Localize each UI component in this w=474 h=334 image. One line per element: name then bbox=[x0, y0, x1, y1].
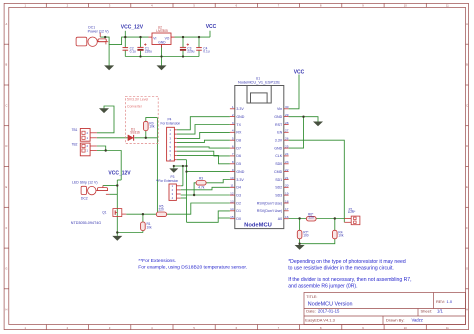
svg-text:4: 4 bbox=[232, 129, 234, 133]
svg-text:TB1: TB1 bbox=[72, 128, 78, 132]
svg-text:D6: D6 bbox=[236, 154, 241, 158]
svg-text:Q1: Q1 bbox=[102, 211, 106, 215]
svg-text:P3: P3 bbox=[171, 175, 175, 179]
svg-text:VCC_12V: VCC_12V bbox=[108, 170, 131, 176]
svg-text:EasyEDA V4.1.3: EasyEDA V4.1.3 bbox=[305, 317, 335, 322]
svg-text:RSV(Don't Use): RSV(Don't Use) bbox=[257, 201, 282, 205]
svg-text:220: 220 bbox=[309, 215, 315, 219]
svg-text:SD0: SD0 bbox=[275, 162, 282, 166]
svg-text:29: 29 bbox=[285, 113, 289, 117]
svg-text:17: 17 bbox=[285, 207, 289, 211]
svg-text:LM7805: LM7805 bbox=[156, 29, 168, 33]
svg-text:D8: D8 bbox=[236, 139, 241, 143]
svg-text:10k: 10k bbox=[149, 125, 155, 129]
svg-text:GND: GND bbox=[158, 41, 166, 45]
svg-text:0.1u: 0.1u bbox=[130, 50, 136, 54]
svg-text:26: 26 bbox=[285, 137, 289, 141]
svg-text:16: 16 bbox=[285, 215, 289, 219]
svg-text:D2: D2 bbox=[236, 201, 241, 205]
svg-text:0.1u: 0.1u bbox=[203, 50, 209, 54]
svg-text:SD3: SD3 bbox=[275, 193, 282, 197]
svg-text:Sheet:: Sheet: bbox=[421, 309, 433, 314]
svg-text:5V/3.3V Level: 5V/3.3V Level bbox=[127, 97, 148, 101]
svg-text:Drawn By:: Drawn By: bbox=[386, 317, 404, 322]
svg-text:Power (12 V): Power (12 V) bbox=[88, 29, 109, 33]
svg-text:24: 24 bbox=[285, 152, 289, 156]
svg-text:22: 22 bbox=[285, 168, 289, 172]
svg-text:VCC: VCC bbox=[294, 70, 305, 76]
svg-text:E: E bbox=[466, 185, 468, 189]
svg-text:**For Extensions.: **For Extensions. bbox=[138, 258, 176, 264]
svg-text:D: D bbox=[466, 144, 468, 148]
svg-text:TB2: TB2 bbox=[72, 143, 78, 147]
svg-text:23: 23 bbox=[285, 160, 289, 164]
svg-text:B: B bbox=[466, 63, 468, 67]
svg-text:19: 19 bbox=[285, 191, 289, 195]
svg-text:3.3V: 3.3V bbox=[236, 178, 244, 182]
svg-text:REV:: REV: bbox=[436, 299, 445, 304]
svg-text:21: 21 bbox=[285, 176, 289, 180]
svg-text:9: 9 bbox=[232, 168, 234, 172]
svg-text:RX: RX bbox=[236, 131, 242, 135]
svg-text:Converter: Converter bbox=[127, 105, 143, 109]
svg-text:LDR*: LDR* bbox=[348, 210, 356, 214]
svg-text:GND: GND bbox=[236, 170, 244, 174]
svg-text:D4: D4 bbox=[236, 186, 241, 190]
svg-text:4.7k: 4.7k bbox=[198, 186, 204, 190]
svg-text:C: C bbox=[5, 103, 7, 107]
svg-text:1/1: 1/1 bbox=[437, 309, 443, 314]
svg-text:NodeMCU Version: NodeMCU Version bbox=[308, 302, 353, 308]
svg-text:100: 100 bbox=[303, 234, 309, 238]
svg-text:GND: GND bbox=[236, 115, 244, 119]
svg-text:13: 13 bbox=[230, 199, 234, 203]
svg-text:28: 28 bbox=[285, 121, 289, 125]
svg-text:12: 12 bbox=[230, 191, 234, 195]
svg-text:10k: 10k bbox=[147, 225, 153, 229]
svg-text:2017-01-15: 2017-01-15 bbox=[318, 309, 340, 314]
svg-text:E: E bbox=[6, 185, 8, 189]
svg-text:220u: 220u bbox=[145, 50, 152, 54]
svg-text:15: 15 bbox=[230, 215, 234, 219]
svg-text:to use resistive divider in th: to use resistive divider in the measurin… bbox=[288, 265, 394, 271]
svg-text:For example, using DS18B20 tem: For example, using DS18B20 temperature s… bbox=[138, 265, 247, 271]
svg-text:TX: TX bbox=[236, 123, 241, 127]
svg-text:G: G bbox=[466, 267, 468, 271]
svg-text:A0: A0 bbox=[278, 217, 282, 221]
svg-text:3: 3 bbox=[232, 121, 234, 125]
svg-text:Vadzz: Vadzz bbox=[412, 318, 423, 323]
svg-text:D: D bbox=[5, 144, 7, 148]
svg-text:SS316: SS316 bbox=[130, 131, 140, 135]
svg-text:D3: D3 bbox=[236, 193, 241, 197]
svg-text:1.0: 1.0 bbox=[447, 299, 453, 304]
svg-text:SD2: SD2 bbox=[275, 186, 282, 190]
svg-text:3.3V: 3.3V bbox=[275, 139, 283, 143]
svg-text:G: G bbox=[5, 267, 7, 271]
svg-text:1: 1 bbox=[232, 105, 234, 109]
svg-text:TITLE:: TITLE: bbox=[306, 295, 317, 299]
svg-text:3.3V: 3.3V bbox=[236, 107, 244, 111]
svg-text:NodeMCU_V1_ESP12E: NodeMCU_V1_ESP12E bbox=[238, 80, 280, 85]
svg-text:5: 5 bbox=[232, 137, 234, 141]
svg-text:H: H bbox=[5, 307, 7, 311]
svg-text:8: 8 bbox=[232, 160, 234, 164]
svg-text:30: 30 bbox=[285, 105, 289, 109]
svg-text:Vin: Vin bbox=[277, 107, 282, 111]
svg-text:B: B bbox=[6, 63, 8, 67]
svg-text:VCC: VCC bbox=[206, 24, 217, 30]
svg-text:If the divider is not necessar: If the divider is not necessary, then no… bbox=[288, 277, 411, 283]
svg-text:25: 25 bbox=[285, 144, 289, 148]
svg-text:2: 2 bbox=[232, 113, 234, 117]
svg-text:H: H bbox=[466, 307, 468, 311]
svg-text:D1: D1 bbox=[236, 209, 241, 213]
svg-text:NTD3055-094T4G: NTD3055-094T4G bbox=[71, 221, 101, 225]
svg-text:11: 11 bbox=[230, 184, 233, 188]
svg-text:**For Extension: **For Extension bbox=[156, 179, 178, 183]
svg-text:6: 6 bbox=[232, 144, 234, 148]
svg-text:D5: D5 bbox=[236, 162, 241, 166]
svg-text:D0: D0 bbox=[236, 217, 241, 221]
svg-text:C: C bbox=[466, 103, 468, 107]
svg-text:R3: R3 bbox=[199, 177, 203, 181]
svg-text:A: A bbox=[466, 22, 468, 26]
svg-text:RSV(Don't Use): RSV(Don't Use) bbox=[257, 209, 282, 213]
svg-text:For Extension: For Extension bbox=[161, 121, 181, 125]
svg-text:SD1: SD1 bbox=[275, 178, 282, 182]
svg-text:GND: GND bbox=[274, 146, 282, 150]
svg-text:*Depending on the type of phot: *Depending on the type of photoresistor … bbox=[288, 259, 406, 265]
svg-text:GND: GND bbox=[274, 115, 282, 119]
svg-text:VI: VI bbox=[153, 37, 156, 41]
svg-text:EN: EN bbox=[277, 131, 282, 135]
svg-text:7: 7 bbox=[232, 152, 234, 156]
svg-text:CMD: CMD bbox=[274, 170, 283, 174]
svg-text:10: 10 bbox=[230, 176, 234, 180]
svg-text:DC2: DC2 bbox=[81, 196, 88, 200]
svg-text:VCC_12V: VCC_12V bbox=[121, 25, 144, 31]
svg-text:Date:: Date: bbox=[306, 309, 316, 314]
svg-text:NodeMCU: NodeMCU bbox=[244, 223, 272, 229]
svg-text:RST: RST bbox=[275, 123, 283, 127]
svg-text:20: 20 bbox=[285, 184, 289, 188]
svg-text:18: 18 bbox=[285, 199, 289, 203]
svg-text:A: A bbox=[6, 22, 8, 26]
svg-text:LED Strip (12 V): LED Strip (12 V) bbox=[72, 181, 97, 185]
svg-text:220: 220 bbox=[159, 208, 165, 212]
svg-text:D7: D7 bbox=[236, 146, 241, 150]
svg-text:CLK: CLK bbox=[275, 154, 283, 158]
svg-text:220u: 220u bbox=[187, 50, 194, 54]
svg-text:10k: 10k bbox=[338, 234, 344, 238]
svg-text:27: 27 bbox=[285, 129, 289, 133]
svg-text:14: 14 bbox=[230, 207, 234, 211]
svg-text:and assemble R6 jumper (0R).: and assemble R6 jumper (0R). bbox=[288, 283, 357, 289]
